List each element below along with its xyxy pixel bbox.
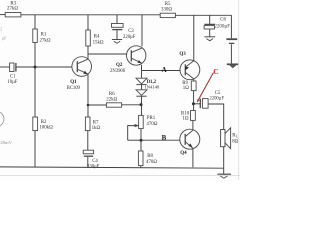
wire R1 to rail: [34, 15, 36, 29]
wire D1 to D2: [141, 85, 143, 90]
wire node B to Q4 base: [141, 139, 180, 141]
wire Q1 emitter down: [87, 74, 89, 117]
svg-text:R1: R1: [41, 33, 47, 38]
resistor R2: [33, 117, 53, 131]
ground of battery: [227, 64, 239, 68]
probe line to node C: [198, 73, 213, 101]
wire emitter node to R6: [88, 104, 106, 106]
svg-text:22kΩ: 22kΩ: [106, 98, 117, 103]
svg-text:Q1: Q1: [70, 80, 77, 85]
wire battery to ground: [230, 44, 232, 63]
wire C3 to ground: [116, 30, 118, 39]
transistor Q1: [67, 57, 92, 91]
capacitor C3: [112, 24, 136, 41]
svg-text:C: C: [213, 67, 218, 76]
resistor R1: [33, 29, 51, 44]
junction node at Q1 base: [34, 66, 37, 69]
wire PR1 to node B: [140, 129, 142, 141]
ground of C6: [204, 37, 215, 41]
wire input to C1: [0, 66, 10, 68]
svg-text:R6: R6: [109, 92, 115, 97]
potentiometer PR1: [133, 115, 157, 128]
capacitor C1: [7, 63, 17, 85]
wire C1 to base node: [16, 66, 35, 68]
svg-text:C3: C3: [128, 29, 134, 34]
wire C6 to ground: [209, 29, 211, 36]
svg-text:470Ω: 470Ω: [146, 122, 157, 127]
diode D1: [136, 78, 147, 84]
wire R7 to C4: [87, 131, 89, 151]
wire C6 to rail: [209, 15, 211, 24]
speaker RL: [221, 128, 239, 149]
wire R6 to diode node: [122, 104, 141, 106]
svg-text:R7: R7: [93, 120, 99, 125]
svg-text:2: 2: [0, 27, 2, 32]
svg-text:Q3: Q3: [179, 52, 186, 57]
junction node below diodes: [140, 103, 143, 106]
svg-text:C6: C6: [220, 18, 226, 23]
svg-text:C4: C4: [92, 159, 98, 164]
resistor R9: [182, 81, 196, 91]
svg-text:27kΩ: 27kΩ: [40, 39, 51, 44]
wire Q2 collector to rail: [141, 15, 143, 46]
resistor R8: [138, 151, 157, 166]
wire R1 to base node: [34, 43, 36, 68]
svg-text:8Ω: 8Ω: [232, 139, 238, 144]
resistor R3: [5, 2, 21, 17]
svg-text:C5: C5: [215, 91, 221, 96]
capacitor C5: [200, 91, 224, 108]
svg-text:Q4: Q4: [180, 151, 187, 156]
wire node B left: [128, 139, 141, 141]
svg-text:R2: R2: [41, 120, 47, 125]
junction node B: [140, 139, 143, 142]
svg-text:15kΩ: 15kΩ: [93, 40, 104, 45]
svg-text:1Ω: 1Ω: [183, 86, 189, 91]
wire R2 to ground rail: [34, 131, 36, 168]
wire node C to C5: [194, 103, 201, 105]
wire PR1 wiper loop: [128, 126, 139, 141]
wire Q2 emitter to D1: [141, 65, 143, 78]
wire Q4 emitter to ground rail: [192, 148, 194, 167]
svg-text:1kΩ: 1kΩ: [92, 126, 101, 131]
wire C5 to speaker: [208, 104, 223, 130]
battery B1: [226, 39, 237, 43]
svg-text:20mV: 20mV: [0, 140, 12, 145]
diode D2: [136, 80, 160, 96]
svg-text:27kΩ: 27kΩ: [7, 7, 18, 12]
wire R2 node to rail bottom: [34, 67, 36, 117]
transistor Q2: [110, 46, 146, 74]
svg-text:Q2: Q2: [116, 63, 123, 68]
wire Q1 collector node to Q2 base: [88, 53, 127, 55]
wire R8 to ground rail: [140, 166, 142, 168]
svg-text:2200µF: 2200µF: [214, 24, 230, 29]
capacitor C4: [83, 150, 100, 169]
svg-text:10µF: 10µF: [7, 80, 17, 85]
wire R9 to node C: [193, 91, 195, 111]
svg-text:B: B: [162, 135, 167, 142]
wire speaker to ground: [223, 147, 225, 174]
wire C4 to ground rail: [87, 157, 89, 167]
svg-text:L: L: [236, 135, 238, 139]
resistor R5: [160, 2, 175, 17]
wire battery drop from rail: [230, 15, 232, 38]
wire Q3 collector to rail: [193, 15, 195, 61]
wire node A to Q3 base: [142, 70, 181, 72]
scan border bottom: [0, 174, 240, 176]
transistor Q4: [180, 129, 200, 156]
svg-text:330µF: 330µF: [87, 165, 100, 170]
wire top rail left segment: [0, 14, 5, 16]
capacitor C6: [204, 18, 230, 30]
svg-text:330Ω: 330Ω: [161, 7, 172, 12]
wire R4 to rail: [87, 15, 89, 30]
svg-text:1N4148: 1N4148: [144, 84, 160, 89]
resistor R10: [181, 111, 195, 122]
signal source V1: [0, 111, 4, 127]
ground of C3: [112, 40, 122, 44]
svg-text:1Ω: 1Ω: [182, 117, 188, 122]
wire R10 to Q4: [192, 120, 194, 129]
resistor R7: [85, 117, 100, 131]
wire R4 to Q1 collector: [87, 46, 89, 59]
transistor Q3: [179, 52, 199, 80]
resistor R4: [86, 30, 104, 46]
junction node C output: [192, 102, 195, 105]
ground of speaker: [217, 174, 231, 178]
wire top rail middle segment: [21, 14, 160, 16]
svg-text:470Ω: 470Ω: [146, 160, 157, 165]
svg-text:2N3906: 2N3906: [110, 69, 126, 74]
svg-text:2200µF: 2200µF: [209, 97, 224, 102]
svg-text:A: A: [162, 67, 167, 74]
wire ground rail bottom: [0, 167, 224, 168]
svg-text:µF: µF: [2, 35, 8, 40]
wire node B to R8: [140, 140, 142, 151]
wire D2 to diode bottom node: [141, 96, 143, 115]
junction node at Q1 emitter: [87, 104, 90, 107]
svg-text:BC109: BC109: [67, 86, 81, 91]
svg-text:220µF: 220µF: [123, 35, 136, 40]
svg-text:R4: R4: [94, 34, 100, 39]
wire C3 to rail: [116, 15, 118, 24]
resistor R6: [106, 92, 121, 107]
wire Q3 emitter to R9: [193, 79, 195, 81]
svg-text:R8: R8: [147, 154, 153, 159]
wire top rail right segment: [175, 14, 231, 16]
scan border right: [238, 0, 240, 180]
wire base node to Q1 base: [35, 66, 72, 68]
svg-text:PR1: PR1: [147, 116, 156, 121]
svg-text:100kΩ: 100kΩ: [39, 125, 53, 130]
